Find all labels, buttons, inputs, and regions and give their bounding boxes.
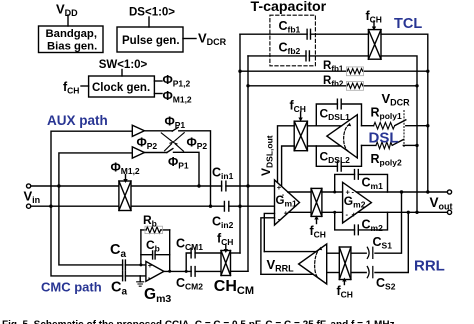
svg-text:Fig. 5. Schematic of the prop: Fig. 5. Schematic of the proposed CCIA. …	[2, 320, 398, 324]
svg-text:Clock gen.: Clock gen.	[92, 82, 150, 94]
svg-text:CMC path: CMC path	[41, 280, 102, 295]
svg-text:SW<1:0>: SW<1:0>	[99, 59, 148, 71]
svg-text:+: +	[346, 188, 351, 197]
svg-text:DS<1:0>: DS<1:0>	[129, 7, 175, 19]
svg-text:+: +	[148, 261, 153, 270]
svg-text:+: +	[352, 210, 357, 219]
svg-text:Bandgap,: Bandgap,	[46, 28, 97, 40]
svg-text:TCL: TCL	[394, 16, 422, 32]
svg-text:T-capacitor: T-capacitor	[251, 0, 327, 15]
svg-text:Bias gen.: Bias gen.	[47, 41, 97, 53]
svg-text:Pulse gen.: Pulse gen.	[122, 35, 180, 47]
svg-text:DSL: DSL	[369, 130, 399, 147]
svg-text:+: +	[284, 209, 289, 218]
svg-text:AUX path: AUX path	[47, 113, 108, 128]
svg-text:RRL: RRL	[414, 258, 445, 275]
